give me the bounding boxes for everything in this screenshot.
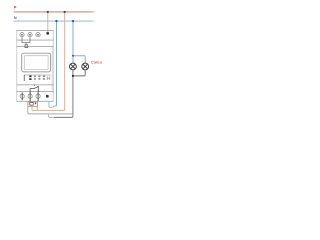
svg-text:Carico: Carico xyxy=(91,59,102,64)
svg-text:N: N xyxy=(14,15,17,20)
svg-text:F: F xyxy=(14,5,17,10)
